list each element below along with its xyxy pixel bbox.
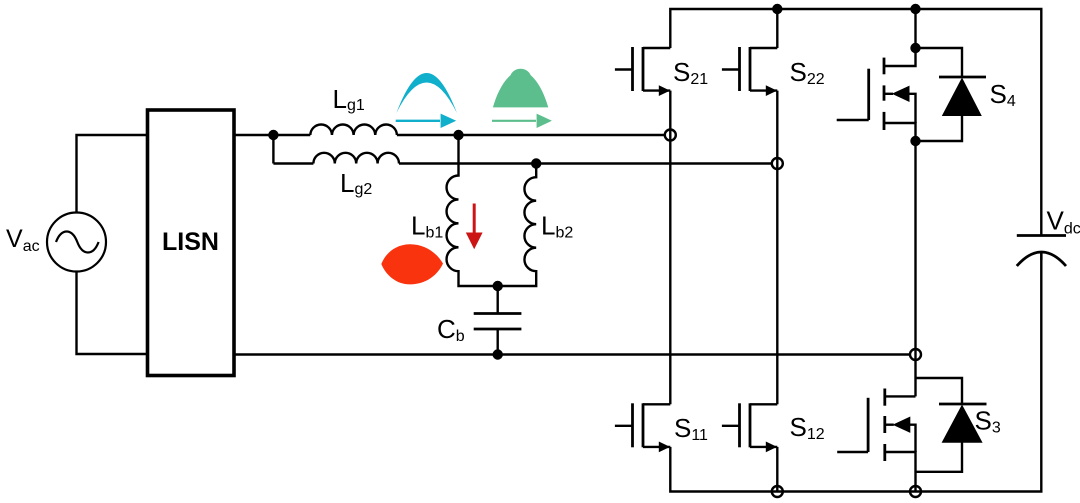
node: S4 drain junction <box>910 43 920 53</box>
svg-text:S12: S12 <box>790 412 825 443</box>
wire: Vac top to LISN <box>77 135 148 213</box>
capacitor Vdc <box>1017 234 1066 237</box>
svg-text:S21: S21 <box>673 57 708 88</box>
transistor S4 <box>837 48 916 141</box>
wire: Lg2 left lead <box>273 162 313 164</box>
svg-text:Vdc: Vdc <box>1047 206 1080 238</box>
node: input junction <box>268 130 278 140</box>
annotation: cyan arrow <box>396 114 457 128</box>
svg-text:S4: S4 <box>990 79 1016 110</box>
capacitor Cb <box>497 286 499 314</box>
node: Cb top junction <box>493 281 503 291</box>
AC source V_ac <box>47 213 106 272</box>
wire: bottom line LISN to dc-mid terminal <box>234 353 910 355</box>
svg-text:Lb2: Lb2 <box>541 211 573 242</box>
wire: leg-b drain rail <box>776 9 778 48</box>
transistor S22 <box>722 47 777 96</box>
svg-text:Vac: Vac <box>6 225 40 255</box>
diode D3 (body diode of S3) <box>916 378 987 472</box>
inductor Lb1 <box>447 135 498 286</box>
wire: S4 to S3 rail <box>914 141 916 396</box>
wire: LISN to Lg1 <box>234 134 310 136</box>
svg-text:Lg1: Lg1 <box>333 84 365 114</box>
diode D4 (body diode of S4) <box>916 48 987 141</box>
node: S4 source junction <box>910 136 920 146</box>
terminal: phase b <box>772 158 783 169</box>
transistor S11 <box>615 403 670 452</box>
annotation: CM noise hump (cyan) <box>396 73 457 113</box>
inductor Lb2 <box>498 164 537 287</box>
svg-text:Lb1: Lb1 <box>411 211 443 242</box>
transistor S21 <box>615 47 670 96</box>
terminal: phase a <box>665 130 676 141</box>
wire: Lg1 to phase-a terminal <box>397 134 665 136</box>
terminal: dc midpoint <box>910 349 921 360</box>
annotation: red current arrow <box>466 204 483 250</box>
wire: leg-a mid rail <box>669 91 671 405</box>
wire: junction drop to Lg2 line <box>272 135 274 164</box>
svg-text:Cb: Cb <box>437 314 465 345</box>
wire: leg-b source drop <box>776 447 778 492</box>
terminal: bottom bus s3 <box>910 486 921 497</box>
annotation: green arrow <box>492 114 552 128</box>
wire: leg-b mid rail <box>776 91 778 405</box>
svg-text:S22: S22 <box>790 57 825 88</box>
LISN box <box>148 110 235 376</box>
wire: S4 drain rail <box>914 9 916 48</box>
wire: negative dc bus <box>670 253 1041 492</box>
svg-text:S3: S3 <box>975 406 1001 437</box>
node A: Lb1 tap <box>453 130 463 140</box>
wire: Lg2 to phase-b terminal <box>399 162 772 164</box>
node: Cb bottom junction <box>493 349 503 359</box>
node B: Lb2 tap <box>531 158 541 168</box>
transistor S12 <box>722 403 777 452</box>
annotation: DM noise hump (green) <box>493 69 548 108</box>
inductor Lg2 <box>313 153 399 164</box>
svg-text:Lg2: Lg2 <box>340 168 372 198</box>
annotation: red blob <box>381 244 443 284</box>
node: S4 drain on bus <box>910 4 920 14</box>
wire: positive dc bus <box>670 9 1041 236</box>
svg-text:LISN: LISN <box>162 228 219 256</box>
transistor S3 <box>837 389 915 492</box>
svg-text:S11: S11 <box>674 413 708 444</box>
terminal: bottom bus b <box>772 486 783 497</box>
inductor Lg1 <box>310 124 397 135</box>
wire: Vac bottom to LISN <box>77 272 148 355</box>
node: S22 drain on bus <box>772 4 782 14</box>
